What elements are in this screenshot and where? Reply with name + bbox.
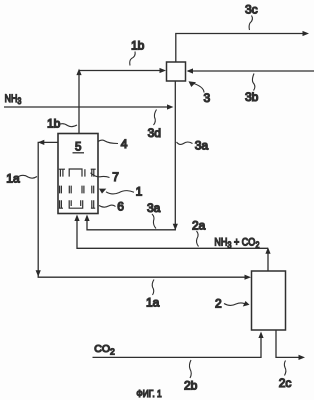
leader 6	[99, 205, 116, 207]
leader 1b top	[130, 52, 135, 66]
wire 2c (vessel 2 bottom outlet to right)	[276, 330, 302, 357]
svg-text:3a: 3a	[147, 201, 161, 215]
arrowhead 3a down (at corner)	[173, 224, 178, 231]
wire CO2 feed	[93, 334, 262, 358]
leader 3a lower	[152, 214, 156, 229]
arrowhead 3b	[187, 68, 194, 73]
wire 3a (vertical from box 3 bottom, down then left under vessel)	[87, 81, 175, 230]
arrowhead 2c right	[299, 355, 306, 360]
leader 1	[106, 191, 134, 194]
leader 1a bottom	[152, 280, 154, 296]
wire NH3 feed line	[4, 106, 171, 108]
svg-text:5: 5	[75, 142, 81, 154]
leader 3 (curved arrow to box corner)	[191, 83, 204, 93]
leader 7	[91, 173, 110, 178]
wire 1b (horizontal into box 3 from left, riser arrow up)	[79, 70, 164, 72]
mixer box 3	[167, 62, 186, 81]
internals row 6 (bottom distributor)	[59, 200, 95, 208]
arrowhead NH3	[167, 104, 174, 109]
svg-text:1: 1	[136, 185, 143, 199]
leader 1a left	[19, 175, 38, 178]
svg-text:2: 2	[215, 297, 222, 311]
arrowhead 1b right	[160, 68, 167, 73]
leader 3d	[154, 110, 157, 126]
leader 2	[224, 303, 247, 305]
wire 2a (riser from vessel 2 top, left run, up into vessel 1 bottom)	[77, 217, 268, 272]
svg-text:CO2: CO2	[94, 343, 115, 356]
svg-text:3d: 3d	[148, 126, 161, 140]
arrowhead 1a right into vessel 2	[245, 275, 252, 280]
arrowhead 2a up (top of riser)	[265, 247, 270, 254]
svg-text:ФИГ. 1: ФИГ. 1	[136, 388, 161, 399]
arrowhead 2a up into vessel 1	[74, 215, 79, 222]
svg-text:1a: 1a	[6, 171, 20, 185]
svg-text:1b: 1b	[131, 39, 145, 53]
leader 4	[98, 140, 118, 143]
svg-text:3c: 3c	[245, 3, 258, 17]
wire 3c (vertical riser from box 3 top, horizontal run to right edge)	[176, 34, 304, 63]
svg-text:1b: 1b	[47, 117, 61, 131]
svg-text:3b: 3b	[245, 90, 259, 104]
wire 1b feed into vessel 1 top	[78, 71, 80, 134]
leader 2a	[197, 231, 199, 247]
svg-text:NH3: NH3	[5, 93, 22, 106]
internals row 7 (top distributor)	[59, 169, 96, 177]
leader 1b left	[59, 124, 78, 127]
leader 2b	[189, 360, 191, 378]
svg-text:NH3 + CO2: NH3 + CO2	[214, 237, 259, 250]
svg-text:2c: 2c	[279, 376, 292, 390]
leader 3b	[252, 74, 254, 91]
svg-text:6: 6	[117, 199, 124, 213]
vessel U1 (stripper 4/5)	[58, 134, 98, 214]
leader 2c	[284, 361, 286, 376]
arrowhead 1a left (at corner)	[38, 140, 45, 145]
svg-text:3: 3	[204, 91, 211, 105]
svg-text:3a: 3a	[195, 139, 209, 153]
svg-text:7: 7	[112, 170, 119, 184]
arrowhead CO2 up into vessel 2	[258, 332, 263, 339]
svg-text:2a: 2a	[192, 218, 206, 232]
svg-text:4: 4	[121, 137, 128, 151]
internals middle row (tubes)	[60, 186, 94, 194]
svg-text:1a: 1a	[146, 296, 160, 310]
vessel U2 (reactor 2)	[252, 271, 286, 330]
arrowhead 3a up into vessel	[84, 215, 89, 222]
arrowhead 1a down (at corner)	[36, 270, 41, 277]
arrowhead 1b up	[76, 69, 81, 76]
leader 3a upper	[177, 142, 193, 144]
leader 3c	[249, 16, 252, 31]
svg-text:2b: 2b	[184, 379, 198, 393]
arrowhead 3c	[303, 31, 310, 36]
wire 3b (from right edge into box 3)	[188, 70, 314, 72]
wire 1a (vessel 1 left outlet, down, right to vessel 2)	[38, 142, 248, 277]
